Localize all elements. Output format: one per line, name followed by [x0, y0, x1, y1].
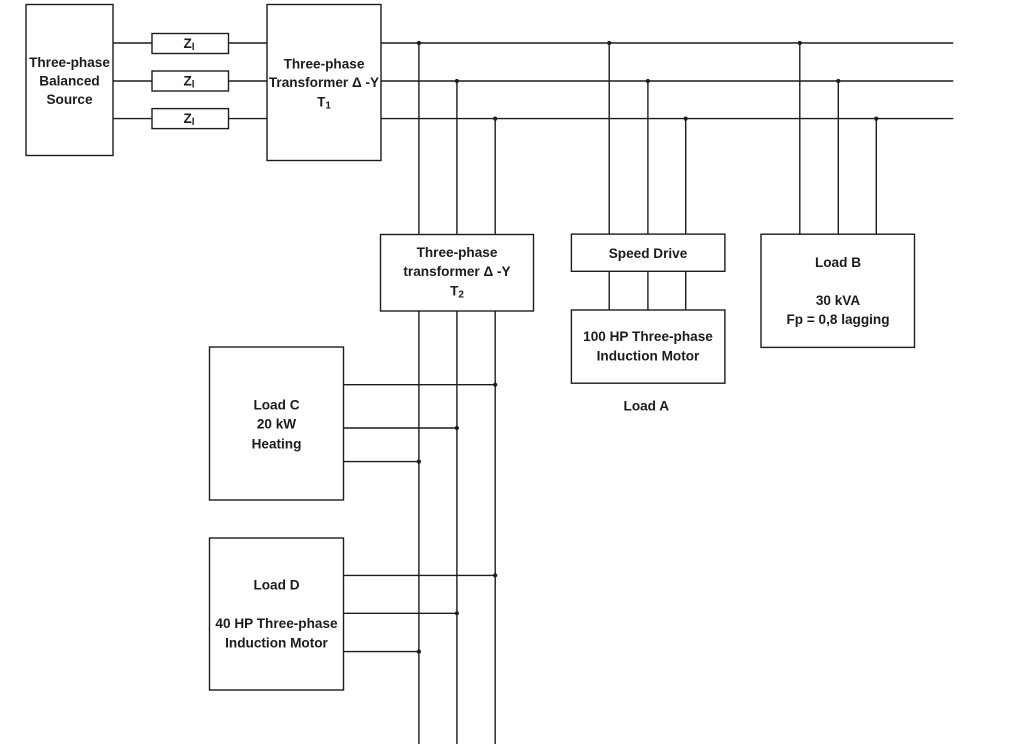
- wire Load D tap 1: [344, 574, 496, 576]
- Load D box: 40 HP Three-phase Induction Motor: [210, 538, 344, 690]
- svg-text:20 kW: 20 kW: [257, 417, 296, 432]
- impedance Z_l phase A: [152, 34, 229, 54]
- svg-text:Induction Motor: Induction Motor: [597, 349, 700, 364]
- wire drop phase B to Speed Drive: [647, 81, 649, 234]
- svg-text:Induction Motor: Induction Motor: [225, 636, 328, 651]
- source box: Three-phase Balanced Source: [26, 5, 113, 156]
- svg-text:30 kVA: 30 kVA: [816, 293, 861, 308]
- junction phase A / T2 drop: [417, 41, 421, 45]
- motor box: 100 HP Three-phase Induction Motor: [571, 310, 725, 383]
- wire Load D tap 3: [344, 651, 419, 653]
- junction phase C / T2 drop: [493, 117, 497, 121]
- svg-text:Three-phase: Three-phase: [284, 57, 365, 72]
- svg-text:Load C: Load C: [253, 398, 299, 413]
- wire Load D tap 2: [344, 612, 457, 614]
- wire drop phase A to Load B: [799, 43, 801, 234]
- junction phase C / Load B drop: [874, 117, 878, 121]
- transformer T2: Three-phase transformer D-Y: [381, 235, 534, 312]
- junction Load C tap 1: [493, 383, 497, 387]
- bus phase B (middle horizontal line): [381, 80, 953, 82]
- wire drop phase C to Speed Drive: [685, 119, 687, 235]
- transformer T1: Three-phase Transformer D-Y: [267, 5, 381, 161]
- impedance Z_l phase C: [152, 109, 229, 129]
- wire drop phase C to T2: [494, 119, 496, 235]
- svg-text:Three-phase: Three-phase: [417, 245, 498, 260]
- svg-text:40 HP Three-phase: 40 HP Three-phase: [215, 616, 338, 631]
- wire T2 secondary phase B (below T2): [456, 311, 458, 744]
- svg-text:Three-phase: Three-phase: [29, 55, 110, 70]
- wire phase A source to Z1: [113, 42, 152, 44]
- junction phase A / Load B drop: [798, 41, 802, 45]
- wire phase B Z2 to T1: [229, 80, 268, 82]
- svg-text:Transformer Δ -Y: Transformer Δ -Y: [269, 75, 379, 90]
- junction phase B / T2 drop: [455, 79, 459, 83]
- junction phase A / Speed Drive drop: [607, 41, 611, 45]
- junction Load D tap 1: [493, 573, 497, 577]
- junction phase B / Load B drop: [836, 79, 840, 83]
- wire phase A Z1 to T1: [229, 42, 268, 44]
- wire Speed Drive to motor phase C: [685, 271, 687, 310]
- wire phase C source to Z3: [113, 118, 152, 120]
- bus phase C (bottom horizontal line): [381, 118, 953, 120]
- wire Speed Drive to motor phase A: [608, 271, 610, 310]
- wire T2 secondary phase C (below T2): [494, 311, 496, 744]
- svg-text:Heating: Heating: [252, 436, 302, 451]
- wire drop phase B to Load B: [837, 81, 839, 234]
- junction phase B / Speed Drive drop: [646, 79, 650, 83]
- svg-text:Load B: Load B: [815, 255, 861, 270]
- wire phase B source to Z2: [113, 80, 152, 82]
- wire drop phase A to Speed Drive: [608, 43, 610, 234]
- svg-text:Load A: Load A: [624, 399, 670, 414]
- Speed Drive box: [571, 234, 725, 271]
- svg-text:Source: Source: [46, 92, 93, 107]
- wire phase C Z3 to T1: [229, 118, 268, 120]
- svg-text:Balanced: Balanced: [39, 74, 99, 89]
- wire Load C tap 3: [344, 461, 419, 463]
- junction Load C tap 2: [455, 426, 459, 430]
- bus phase A (top horizontal line): [381, 42, 953, 44]
- wire Load C tap 2: [344, 427, 457, 429]
- junction Load C tap 3: [417, 460, 421, 464]
- svg-text:100 HP Three-phase: 100 HP Three-phase: [583, 329, 713, 344]
- wire Speed Drive to motor phase B: [647, 271, 649, 310]
- junction Load D tap 3: [417, 650, 421, 654]
- wire drop phase B to T2: [456, 81, 458, 235]
- svg-text:Speed Drive: Speed Drive: [609, 246, 688, 261]
- svg-text:Fp = 0,8 lagging: Fp = 0,8 lagging: [786, 312, 889, 327]
- junction Load D tap 2: [455, 611, 459, 615]
- wire T2 secondary phase A (below T2): [418, 311, 420, 744]
- wire drop phase C to Load B: [875, 119, 877, 235]
- Load B box: 30 kVA Fp = 0,8 lagging: [761, 234, 915, 347]
- Load C box: 20 kW Heating: [210, 347, 344, 500]
- junction phase C / Speed Drive drop: [684, 117, 688, 121]
- wire drop phase A to T2: [418, 43, 420, 235]
- svg-text:Load D: Load D: [253, 578, 299, 593]
- svg-text:transformer Δ -Y: transformer Δ -Y: [403, 264, 510, 279]
- wire Load C tap 1: [344, 384, 496, 386]
- impedance Z_l phase B: [152, 71, 229, 91]
